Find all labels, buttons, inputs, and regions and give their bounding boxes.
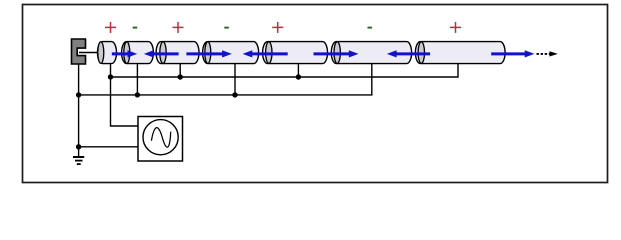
tube T7 aperture ellipse	[418, 42, 424, 64]
field arrow A5 right	[314, 50, 359, 57]
polarity sign + over T3	[173, 22, 184, 33]
polarity sign + over T5	[272, 22, 283, 33]
junction T4 lower bus	[232, 92, 237, 97]
drift tube T7	[415, 42, 505, 64]
junction T1 upper bus	[108, 74, 113, 79]
wire T3 drop	[179, 64, 181, 77]
drift tube T1	[98, 42, 117, 64]
AC sine symbol	[151, 128, 170, 148]
dashed beam continuation	[537, 53, 551, 55]
AC source box U1	[138, 117, 183, 162]
wire T4 drop	[234, 64, 236, 95]
polarity sign - over T4	[224, 27, 229, 29]
electron gun G	[72, 39, 86, 64]
tube T4 aperture ellipse	[205, 42, 211, 64]
field arrow A1 right	[112, 50, 137, 57]
junction T5 upper bus	[296, 74, 301, 79]
polarity sign - over T2	[133, 27, 138, 29]
field arrow A3 right	[186, 50, 231, 57]
dashed beam arrowhead	[550, 51, 558, 56]
field arrow A6 left	[387, 50, 430, 57]
wire T7 drop to upper bus	[111, 64, 459, 77]
tube T5 aperture ellipse	[266, 42, 272, 64]
junction gun lower bus	[76, 92, 81, 97]
field arrow A7 exit right	[491, 50, 534, 57]
polarity sign - over T6	[368, 27, 373, 29]
AC source circle	[143, 120, 178, 155]
wire T1 drop to AC	[111, 64, 139, 126]
ground symbol	[73, 157, 84, 164]
drift tube T2	[122, 42, 154, 64]
tube T2 aperture ellipse	[124, 42, 130, 64]
tube T3 aperture ellipse	[160, 42, 166, 64]
wire beam line gun to tube 1	[79, 52, 99, 54]
drift tube T3	[156, 42, 199, 64]
frame border	[23, 5, 608, 183]
wire AC lower terminal	[79, 146, 138, 148]
polarity sign + over T7	[450, 22, 461, 33]
wire T5 drop	[297, 64, 299, 77]
drift tube T6	[331, 42, 411, 64]
polarity sign + over T1	[105, 22, 116, 33]
tube T6 aperture ellipse	[334, 42, 340, 64]
junction T3 upper bus	[178, 74, 183, 79]
junction gun AC branch	[76, 144, 81, 149]
field arrow A2 left	[144, 50, 179, 57]
wire gun drop	[78, 64, 80, 156]
drift tube T4	[203, 42, 259, 64]
tube T1 aperture ellipse	[98, 42, 104, 64]
junction T2 lower bus	[135, 92, 140, 97]
wire T6 drop to lower bus	[79, 64, 372, 95]
wire T2 drop	[136, 64, 138, 95]
field arrow A4 left	[243, 50, 288, 57]
drift tube T5	[263, 42, 328, 64]
